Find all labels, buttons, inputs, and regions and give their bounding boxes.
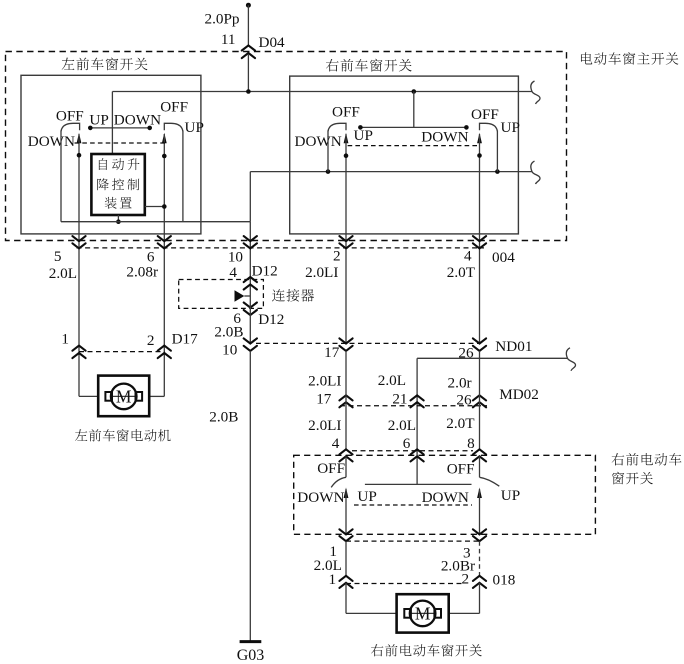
svg-text:OFF: OFF (160, 99, 188, 116)
connector pin 6 (158, 236, 171, 241)
svg-text:D12: D12 (258, 311, 284, 328)
node battery feed top dot (246, 3, 251, 8)
connector pin 6 rf (411, 449, 424, 454)
svg-text:OFF: OFF (447, 460, 475, 477)
svg-text:2.0LI: 2.0LI (308, 373, 341, 390)
connector MD02 pin 26 (473, 395, 486, 400)
pin row dashed (352, 450, 473, 452)
label 连接器 (272, 289, 285, 302)
svg-text:4: 4 (464, 248, 472, 265)
svg-text:1: 1 (329, 571, 337, 588)
arc rf left switch (331, 477, 346, 487)
svg-text:2.0Br: 2.0Br (441, 558, 475, 575)
mechanical link dashed left box (75, 142, 167, 144)
wire pin26 column down (479, 351, 481, 449)
wire riser pin10 (249, 222, 251, 296)
svg-text:2.0r: 2.0r (448, 375, 472, 392)
connector pin 4 / 004 (473, 236, 486, 241)
break squiggle top bus (531, 81, 540, 104)
svg-text:2: 2 (147, 332, 155, 349)
ground G03 (240, 640, 262, 643)
wire rf motor right lead (479, 583, 481, 614)
connector rf pin 1 (339, 529, 352, 534)
svg-text:6: 6 (403, 435, 411, 452)
svg-text:DOWN: DOWN (421, 128, 468, 145)
svg-text:2: 2 (333, 248, 341, 265)
connector 018 pin 1 (339, 576, 352, 581)
wire UP contact right box right switch (496, 131, 498, 172)
wire D04 to bus (247, 54, 249, 92)
wire 2.0B to ground (249, 351, 251, 641)
wiper arrow rf right (477, 488, 482, 499)
connector D17 dashed (79, 351, 164, 353)
wire top supply bus (112, 91, 532, 93)
right front switch dashed box (294, 455, 596, 534)
label 自动升 (99, 158, 107, 170)
wire wiper pin 2 column (345, 134, 347, 344)
connector MD02 pin 21 (411, 395, 424, 400)
svg-text:26: 26 (456, 392, 472, 409)
contact bar right box (360, 126, 466, 128)
wire bus tap right box (413, 92, 415, 128)
motor M1 left front window (98, 376, 149, 417)
wire rf motor left lead (345, 583, 347, 614)
connector row dashed line (77, 247, 485, 249)
wire rf left top (345, 456, 347, 477)
mechanical link dashed right box (348, 145, 478, 147)
svg-text:1: 1 (61, 331, 69, 348)
wire rf right dashed drop (479, 541, 481, 576)
wiper arrow right box right switch pin4 (477, 133, 482, 144)
connector arrow symbol (235, 290, 245, 301)
svg-text:DOWN: DOWN (422, 489, 469, 506)
wire wiper pin 5 column (78, 134, 80, 396)
svg-text:2.0L: 2.0L (388, 417, 416, 434)
connector pin 5 (72, 236, 85, 241)
connector MD02 pin 17 (339, 395, 352, 400)
svg-text:21: 21 (392, 391, 407, 408)
svg-text:10: 10 (222, 342, 238, 359)
wire rf right wiper down (479, 489, 481, 535)
switch wiper arc left (DOWN contact to OFF) (61, 123, 80, 131)
svg-text:2.0LI: 2.0LI (305, 264, 338, 281)
wire D12 to ND01 (249, 296, 251, 344)
break squiggle takeoff (566, 348, 575, 371)
svg-text:DOWN: DOWN (297, 489, 344, 506)
wire rf left to 018 (345, 541, 347, 576)
svg-text:10: 10 (228, 249, 244, 266)
connector pin 8 rf (473, 449, 486, 454)
svg-text:2.08r: 2.08r (126, 264, 158, 281)
svg-text:DOWN: DOWN (114, 112, 161, 129)
svg-text:UP: UP (185, 119, 204, 136)
label 右前车窗开关 (326, 59, 339, 72)
svg-text:018: 018 (493, 572, 516, 589)
junction dot D04 bus (246, 89, 251, 94)
mechanical link dashed rf (354, 504, 472, 506)
wire motor left lead (79, 395, 98, 397)
wire control unit bottom tap (117, 215, 119, 222)
label 降控制 (97, 178, 108, 190)
svg-text:2.0L: 2.0L (378, 372, 406, 389)
connector D04 (242, 45, 255, 50)
svg-text:004: 004 (492, 249, 515, 266)
svg-text:UP: UP (357, 488, 376, 505)
power window master switch dashed box (6, 52, 567, 241)
wire DOWN contact right box left switch (327, 131, 329, 172)
svg-text:ND01: ND01 (495, 338, 532, 355)
left front window switch box (21, 75, 201, 234)
svg-text:5: 5 (54, 248, 62, 265)
svg-text:UP: UP (501, 119, 520, 136)
svg-text:DOWN: DOWN (28, 133, 75, 150)
svg-text:M: M (116, 386, 132, 406)
junction dot right box bus (412, 89, 417, 94)
wire bus to control device (111, 92, 113, 155)
arc right box left switch (328, 123, 346, 131)
label 右前电动车窗开关 (371, 644, 383, 656)
auto up-down control unit box U1 (91, 154, 144, 215)
connector ND01 pin 10 (244, 338, 257, 343)
connector D12 pin 6 (244, 303, 257, 308)
wire lower bus left box (61, 221, 250, 223)
wiper arrow left box right switch pin6 (162, 133, 167, 144)
right front window switch box (master) (290, 76, 519, 234)
wire DOWN contact left switch (60, 131, 62, 222)
wire takeoff branch (417, 357, 567, 359)
svg-text:2.0T: 2.0T (447, 264, 476, 281)
connector rf pin 3 (473, 529, 486, 534)
contact bar left box (90, 127, 149, 129)
wire rf right top (479, 456, 481, 477)
wire second bus (250, 171, 532, 173)
svg-text:8: 8 (467, 435, 475, 452)
label master switch 电动车窗主开关 (581, 52, 592, 64)
svg-text:D17: D17 (172, 331, 199, 348)
svg-text:OFF: OFF (471, 106, 499, 123)
wire pin17 to switch (345, 351, 347, 449)
svg-text:2.0Pp: 2.0Pp (204, 11, 239, 28)
contact bar rf (365, 483, 472, 485)
svg-text:2.0L: 2.0L (49, 265, 77, 282)
wiper arrow left switch pin5 (77, 133, 82, 144)
connector ND01 pin 26 (473, 338, 486, 343)
svg-text:4: 4 (229, 264, 237, 281)
wire riser to second bus (249, 172, 251, 222)
connector MD02 dashed (340, 405, 487, 407)
wire wiper pin 6 column (163, 134, 165, 396)
label 左前车窗电动机 (75, 429, 87, 441)
svg-text:D12: D12 (252, 263, 278, 280)
wiper arrow right box left switch pin2 (344, 133, 349, 144)
wire UP contact to lower bus (182, 131, 184, 222)
svg-text:DOWN: DOWN (295, 133, 342, 150)
connector 018 dashed (346, 583, 463, 585)
arc right box right switch (480, 123, 498, 131)
wire motor right lead (149, 395, 164, 397)
connector pin 4 rf (339, 449, 352, 454)
svg-text:11: 11 (221, 31, 236, 48)
wire feed to D04 (247, 5, 249, 46)
svg-text:OFF: OFF (56, 108, 84, 125)
svg-text:M: M (415, 603, 431, 623)
wire wiper pin 4 column (479, 134, 481, 344)
wiper arrow rf left (344, 488, 349, 499)
label 装置 (105, 197, 117, 209)
svg-text:2: 2 (462, 570, 470, 587)
svg-text:17: 17 (324, 344, 340, 361)
svg-text:MD02: MD02 (499, 386, 539, 403)
wire control unit right tap (145, 206, 165, 208)
svg-text:G03: G03 (237, 647, 265, 664)
svg-text:D04: D04 (259, 34, 286, 51)
svg-text:OFF: OFF (332, 104, 360, 121)
motor M2 right front window (397, 594, 449, 632)
svg-text:2.0B: 2.0B (214, 324, 243, 341)
label 窗开关 (612, 472, 624, 485)
connector pin 10 (244, 236, 257, 241)
svg-text:UP: UP (89, 112, 108, 129)
connector D17 pin 2 (158, 346, 171, 351)
label 右前电动车 (612, 453, 625, 465)
svg-text:2.0LI: 2.0LI (308, 417, 341, 434)
svg-text:UP: UP (501, 487, 520, 504)
connector ND01 pin 17 (339, 338, 352, 343)
svg-text:26: 26 (458, 345, 474, 362)
svg-text:4: 4 (332, 435, 340, 452)
label 左前车窗开关 (62, 58, 75, 70)
arc rf right switch (480, 477, 500, 486)
connector ND01 dashed (256, 342, 480, 344)
svg-text:17: 17 (316, 391, 332, 408)
wire rf left wiper down (345, 489, 347, 535)
svg-text:2.0T: 2.0T (446, 415, 475, 432)
break squiggle second bus (531, 161, 540, 184)
svg-text:OFF: OFF (317, 460, 345, 477)
connector pin 2 (339, 236, 352, 241)
connector D17 pin 1 (72, 346, 85, 351)
svg-text:2.0B: 2.0B (209, 409, 238, 426)
svg-text:UP: UP (354, 127, 373, 144)
connector 018 pin 2 (473, 576, 486, 581)
connector row dashed rf (346, 540, 480, 542)
in-line connector dashed box 连接器 (179, 280, 264, 309)
switch wiper arc left box right switch (164, 123, 183, 131)
